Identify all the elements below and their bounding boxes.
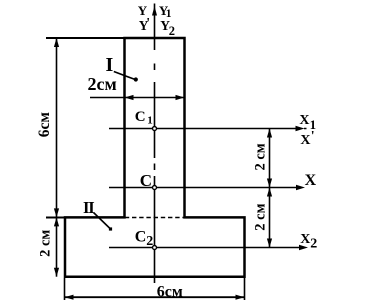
- svg-text:X: X: [305, 172, 317, 189]
- extension line top left: [46, 37, 124, 39]
- right dimension line between X1 and X2: [269, 129, 271, 248]
- svg-text:2: 2: [310, 237, 317, 252]
- leader line for label I: [114, 72, 135, 80]
- centroid C circle: [153, 186, 157, 190]
- svg-text:': ': [311, 129, 315, 144]
- vertical centerline (Y axis dash-dot): [154, 4, 156, 284]
- svg-text:C: C: [140, 171, 152, 190]
- svg-text:2 см: 2 см: [252, 143, 268, 170]
- svg-text:X: X: [300, 232, 310, 247]
- svg-text:6см: 6см: [157, 283, 183, 300]
- svg-text:6см: 6см: [36, 112, 53, 138]
- svg-text:2: 2: [146, 234, 153, 249]
- dashed junction line between rect I and rect II: [125, 217, 185, 219]
- left 2cm dimension line: [56, 217, 58, 276]
- Y axis arrowhead: [152, 6, 157, 16]
- axis X1 line: [109, 128, 307, 130]
- centroid C1 circle: [153, 127, 157, 131]
- extension line at junction left: [46, 217, 64, 219]
- svg-text:1: 1: [147, 114, 153, 126]
- extension line bottom right: [244, 278, 246, 300]
- right dimension arrowheads: [267, 129, 272, 138]
- svg-text:X: X: [300, 133, 310, 148]
- svg-text:X: X: [299, 113, 309, 128]
- centroid C2 circle: [153, 246, 157, 250]
- axis X1 arrowhead: [296, 126, 305, 131]
- axis X2 line: [109, 247, 300, 249]
- leader line for label II: [94, 213, 110, 229]
- left 6cm dimension line: [56, 38, 58, 217]
- svg-text:2: 2: [169, 24, 175, 38]
- svg-text:2 см: 2 см: [38, 230, 54, 257]
- axis X2 arrowhead: [299, 245, 308, 250]
- axis X line: [109, 187, 297, 189]
- svg-text:II: II: [83, 198, 94, 217]
- svg-text:C: C: [135, 228, 147, 245]
- svg-text:2 см: 2 см: [252, 203, 268, 230]
- T-section outline (rectangles I and II composite profile): [65, 38, 245, 277]
- bottom 6cm dimension line: [65, 296, 245, 298]
- svg-text:C: C: [135, 109, 146, 125]
- extension line bottom left: [64, 278, 66, 300]
- top 2cm width dimension line: [90, 97, 185, 99]
- svg-text:': ': [146, 16, 150, 31]
- axis X arrowhead: [296, 185, 305, 190]
- svg-text:I: I: [106, 54, 114, 76]
- svg-text:2см: 2см: [88, 74, 117, 94]
